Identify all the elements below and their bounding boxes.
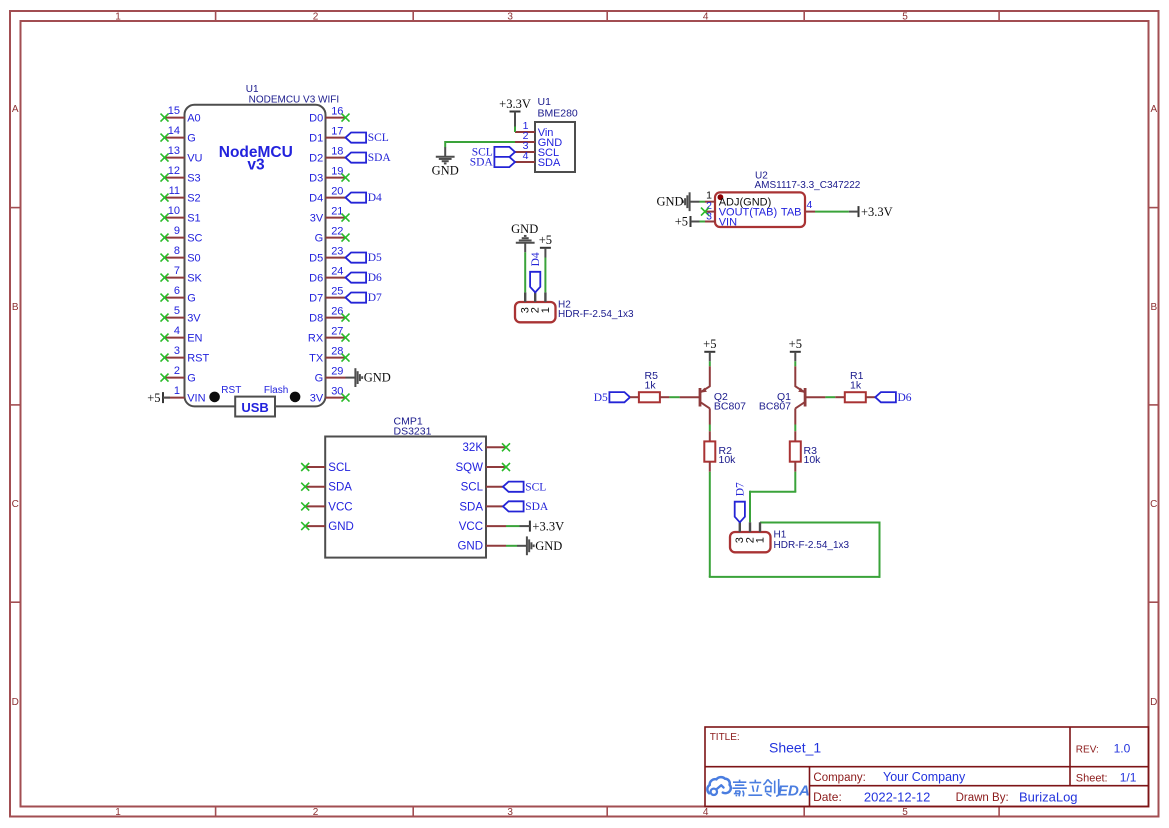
svg-text:D4: D4 — [309, 192, 323, 204]
svg-text:13: 13 — [168, 145, 180, 157]
svg-text:1: 1 — [115, 807, 121, 818]
svg-text:10k: 10k — [719, 454, 737, 466]
svg-text:22: 22 — [331, 225, 343, 237]
svg-text:D4: D4 — [368, 192, 382, 204]
U1 BME280 pin 2 (GND) — [515, 130, 562, 149]
U1 pin 28 (TX) — [309, 345, 349, 364]
power +3.3V flag at U2 pin 4 — [849, 205, 893, 219]
svg-text:4: 4 — [174, 325, 180, 337]
wire +5 to Q2 emitter — [709, 361, 711, 366]
U1 pin 23 (D5) — [309, 245, 345, 264]
svg-text:BurizaLog: BurizaLog — [1019, 789, 1078, 804]
transistor Q1 BC807 — [759, 366, 826, 424]
wire R2 to H1 pin 1 (loop) — [709, 472, 881, 578]
svg-text:+5: +5 — [147, 391, 160, 405]
svg-text:VCC: VCC — [328, 501, 352, 513]
net flag D5 at U1 pin 23 — [346, 252, 383, 264]
net flag SDA at U1 pin 18 — [346, 152, 392, 164]
svg-text:U1: U1 — [538, 96, 552, 108]
svg-text:G: G — [187, 132, 196, 144]
svg-text:SK: SK — [187, 272, 202, 284]
svg-text:D4: D4 — [530, 252, 542, 266]
svg-text:GND: GND — [535, 539, 562, 553]
svg-text:C: C — [12, 499, 19, 510]
svg-text:21: 21 — [331, 205, 343, 217]
svg-text:G: G — [187, 372, 196, 384]
U1 pin 30 (3V) — [310, 385, 350, 404]
net flag D5 — [594, 392, 630, 404]
svg-text:S1: S1 — [187, 212, 200, 224]
svg-text:BC807: BC807 — [759, 401, 791, 413]
U1 pin 20 (D4) — [309, 185, 345, 204]
CMP1 right pin SDA — [459, 501, 506, 513]
svg-text:A: A — [1150, 104, 1157, 115]
svg-text:SCL: SCL — [328, 462, 351, 474]
net flag D4 at H2 pin 2 — [530, 252, 542, 292]
ground flag GND at U2 pin 1 — [657, 192, 700, 211]
U1 pin 15 (A0) — [161, 105, 201, 124]
U1 pin 26 (D8) — [309, 305, 349, 324]
title block texts — [710, 732, 1137, 804]
U2 pin 2 VOUT(TAB) — [701, 200, 777, 219]
svg-text:HDR-F-2.54_1x3: HDR-F-2.54_1x3 — [774, 540, 850, 551]
wire GND to H2 pin 3 — [524, 252, 526, 292]
U1 pin 29 (G) — [315, 365, 346, 384]
wire Q1 base to R1 — [825, 396, 835, 398]
U1 BME280 pin 3 (SCL) — [515, 140, 559, 159]
wire R3 to H1 pin 2 — [750, 472, 796, 523]
power +5 flag above Q2 — [703, 337, 716, 361]
svg-text:EN: EN — [187, 332, 202, 344]
svg-text:32K: 32K — [463, 442, 484, 454]
CMP1 right pin SCL — [461, 482, 506, 494]
svg-text:G: G — [187, 292, 196, 304]
svg-text:2022-12-12: 2022-12-12 — [864, 789, 931, 804]
EasyEDA logo cloud — [707, 777, 730, 795]
svg-text:D: D — [1150, 697, 1157, 708]
svg-text:Flash: Flash — [264, 385, 288, 396]
U2 pin 3 VIN — [705, 211, 737, 229]
U1 pin 9 (SC) — [161, 225, 203, 244]
svg-text:3V: 3V — [187, 312, 201, 324]
svg-text:10: 10 — [168, 205, 180, 217]
svg-text:D1: D1 — [309, 132, 323, 144]
net flag SDA at CMP1 — [503, 501, 549, 513]
svg-text:15: 15 — [168, 105, 180, 117]
H1 pin 2 — [744, 522, 756, 543]
svg-text:2: 2 — [313, 12, 319, 23]
U1 pin 17 (D1) — [309, 125, 345, 144]
svg-text:A: A — [12, 104, 19, 115]
svg-text:H1: H1 — [774, 530, 787, 541]
U2 pin 1 ADJ(GND) — [705, 190, 771, 209]
U1 USB connector box — [235, 397, 275, 417]
svg-text:NODEMCU V3 WIFI: NODEMCU V3 WIFI — [249, 95, 340, 106]
power +5 flag at U1 pin 1 VIN — [147, 391, 170, 405]
U1 pin 6 (G) — [161, 285, 196, 304]
svg-text:AMS1117-3.3_C347222: AMS1117-3.3_C347222 — [755, 180, 861, 191]
svg-text:S2: S2 — [187, 192, 200, 204]
svg-text:S3: S3 — [187, 172, 200, 184]
svg-text:16: 16 — [331, 105, 343, 117]
svg-text:30: 30 — [331, 385, 343, 397]
U1 pin 22 (G) — [315, 225, 350, 244]
svg-text:EDA: EDA — [778, 783, 810, 800]
U1 BME280 pin 1 (Vin) — [515, 120, 553, 139]
U1 pin 12 (S3) — [161, 165, 201, 184]
resistor R5 1k — [630, 370, 669, 402]
svg-text:D5: D5 — [309, 252, 323, 264]
svg-text:9: 9 — [174, 225, 180, 237]
svg-text:3: 3 — [174, 345, 180, 357]
sensor U1 BME280 body — [535, 96, 578, 172]
power +5 flag above Q1 — [789, 337, 802, 361]
wire +5 to U2 pin 3 — [700, 221, 706, 223]
svg-text:1: 1 — [115, 12, 121, 23]
svg-text:SDA: SDA — [525, 501, 549, 513]
svg-text:VIN: VIN — [719, 217, 737, 229]
svg-text:GND: GND — [657, 195, 684, 209]
U1 BME280 pin 4 (SDA) — [515, 150, 561, 169]
U1 pin 13 (VU) — [161, 145, 203, 164]
U1 pin 21 (3V) — [310, 205, 350, 224]
svg-text:TAB: TAB — [781, 206, 802, 218]
U1 pin 3 (RST) — [161, 345, 210, 364]
wire R5 to Q2 base — [669, 396, 679, 398]
svg-text:1: 1 — [754, 537, 766, 543]
svg-text:SC: SC — [187, 232, 202, 244]
U1 pin 27 (RX) — [308, 325, 350, 344]
svg-text:D7: D7 — [309, 292, 323, 304]
svg-text:1.0: 1.0 — [1114, 742, 1131, 756]
svg-text:17: 17 — [331, 125, 343, 137]
U1 pin 16 (D0) — [309, 105, 349, 124]
svg-text:2: 2 — [174, 365, 180, 377]
svg-text:+3.3V: +3.3V — [499, 97, 531, 111]
U1 Flash button dot — [264, 385, 301, 402]
svg-text:2: 2 — [313, 807, 319, 818]
wire BME280 pin 2 GND to ground — [445, 141, 515, 147]
svg-text:5: 5 — [902, 807, 908, 818]
svg-text:v3: v3 — [247, 156, 265, 173]
svg-text:+5: +5 — [703, 337, 716, 351]
H2 pin 1 — [540, 292, 552, 313]
net flag SCL at U1 pin 17 — [346, 132, 389, 144]
wire +5 to H2 pin 1 — [544, 258, 546, 293]
svg-text:1k: 1k — [850, 379, 862, 391]
svg-text:VU: VU — [187, 152, 202, 164]
H2 pin 2 — [530, 292, 542, 313]
net flag D4 at U1 pin 20 — [346, 192, 383, 204]
svg-text:28: 28 — [331, 345, 343, 357]
wire Q1 collector to R3 — [794, 425, 796, 432]
svg-text:3V: 3V — [310, 392, 324, 404]
svg-text:VIN: VIN — [187, 392, 205, 404]
svg-text:4: 4 — [703, 807, 709, 818]
U1 pin 1 (VIN) — [165, 385, 206, 404]
svg-text:1: 1 — [174, 385, 180, 397]
resistor R1 1k — [835, 370, 875, 402]
net flag D6 — [875, 392, 912, 404]
svg-text:8: 8 — [174, 245, 180, 257]
regulator U2 AMS1117-3.3_C347222 body — [715, 171, 861, 227]
svg-text:5: 5 — [174, 305, 180, 317]
U1 pin 11 (S2) — [161, 185, 201, 204]
svg-text:6: 6 — [174, 285, 180, 297]
svg-text:GND: GND — [511, 222, 538, 236]
svg-text:D5: D5 — [594, 392, 608, 404]
svg-text:3: 3 — [507, 12, 513, 23]
U1 pin 5 (3V) — [161, 305, 202, 324]
H1 pin 3 — [734, 522, 746, 543]
svg-text:11: 11 — [169, 185, 180, 197]
svg-text:29: 29 — [331, 365, 343, 377]
svg-text:BME280: BME280 — [538, 107, 578, 119]
svg-text:D8: D8 — [309, 312, 323, 324]
net flag D7 at H1 pin 3 — [734, 482, 746, 522]
svg-text:D7: D7 — [734, 482, 746, 496]
svg-text:SQW: SQW — [456, 462, 484, 474]
U1 pin 25 (D7) — [309, 285, 345, 304]
svg-text:4: 4 — [703, 12, 709, 23]
svg-text:BC807: BC807 — [714, 401, 746, 413]
svg-text:GND: GND — [457, 541, 483, 553]
net flag D6 at U1 pin 24 — [346, 272, 383, 284]
svg-text:G: G — [315, 232, 324, 244]
U1 pin 24 (D6) — [309, 265, 345, 284]
svg-text:3: 3 — [507, 807, 513, 818]
svg-text:+3.3V: +3.3V — [532, 519, 564, 533]
svg-text:GND: GND — [364, 371, 391, 385]
svg-text:+5: +5 — [675, 215, 688, 229]
svg-text:D6: D6 — [898, 392, 912, 404]
net flag SDA at BME280 pin 4 — [470, 157, 515, 169]
svg-text:TX: TX — [309, 352, 324, 364]
power +3.3V flag above BME280 pin 1 — [499, 97, 531, 127]
mcu module U1 NODEMCU V3 WIFI body — [185, 84, 340, 407]
U1 pin 7 (SK) — [161, 265, 203, 284]
ground flag GND above H2 pin 3 — [511, 222, 538, 252]
svg-text:B: B — [12, 302, 19, 313]
H1 pin 1 — [754, 522, 766, 543]
svg-text:4: 4 — [523, 150, 529, 162]
svg-text:S0: S0 — [187, 252, 200, 264]
svg-text:27: 27 — [331, 325, 343, 337]
svg-text:USB: USB — [241, 400, 268, 415]
svg-text:RX: RX — [308, 332, 324, 344]
svg-text:7: 7 — [174, 265, 180, 277]
power +5 flag above H2 pin 1 — [539, 233, 552, 257]
CMP1 right pin SQW — [456, 462, 510, 474]
CMP1 left pin VCC — [301, 501, 352, 513]
svg-text:HDR-F-2.54_1x3: HDR-F-2.54_1x3 — [558, 309, 634, 320]
svg-text:20: 20 — [331, 185, 343, 197]
svg-text:Company:: Company: — [813, 772, 865, 784]
svg-text:U1: U1 — [246, 84, 259, 95]
svg-text:23: 23 — [331, 245, 343, 257]
wire +3.3V to BME280 pin 1 — [514, 127, 516, 133]
svg-text:SDA: SDA — [470, 157, 494, 169]
transistor Q2 BC807 — [680, 366, 747, 424]
wire U2 pin 4 to +3.3V — [815, 211, 849, 213]
net flag D7 at U1 pin 25 — [346, 292, 383, 304]
svg-text:D6: D6 — [309, 272, 323, 284]
U1 pin 4 (EN) — [161, 325, 203, 344]
svg-text:26: 26 — [331, 305, 343, 317]
svg-text:3: 3 — [706, 211, 712, 223]
svg-text:+5: +5 — [789, 337, 802, 351]
svg-text:5: 5 — [902, 12, 908, 23]
svg-text:19: 19 — [331, 165, 343, 177]
svg-text:+5: +5 — [539, 233, 552, 247]
ground flag at CMP1 GND — [517, 536, 562, 555]
svg-text:SCL: SCL — [461, 482, 484, 494]
svg-text:D3: D3 — [309, 172, 323, 184]
svg-text:14: 14 — [168, 125, 180, 137]
svg-text:1k: 1k — [645, 379, 657, 391]
CMP1 left pin GND — [301, 521, 354, 533]
svg-text:SDA: SDA — [368, 152, 392, 164]
U1 pin 8 (S0) — [161, 245, 201, 264]
ground flag at U1 pin 29 — [346, 368, 391, 387]
svg-text:B: B — [1150, 302, 1157, 313]
svg-text:SCL: SCL — [368, 132, 389, 144]
svg-text:12: 12 — [168, 165, 180, 177]
connector H1 HDR-F-2.54_1x3 body — [730, 530, 850, 553]
svg-text:DS3231: DS3231 — [394, 425, 432, 437]
svg-text:D: D — [12, 697, 19, 708]
svg-text:REV:: REV: — [1076, 745, 1099, 756]
resistor R3 10k — [790, 431, 821, 471]
power +5 flag at U2 pin 3 — [675, 215, 700, 229]
svg-text:VCC: VCC — [459, 521, 483, 533]
svg-text:Your Company: Your Company — [883, 770, 966, 784]
svg-text:D2: D2 — [309, 152, 323, 164]
wire Q2 collector to R2 — [709, 425, 711, 432]
power +3.3V flag at CMP1 VCC — [520, 519, 565, 533]
connector H2 HDR-F-2.54_1x3 body — [515, 300, 634, 323]
CMP1 right pin VCC — [459, 521, 506, 533]
svg-text:D0: D0 — [309, 112, 323, 124]
CMP1 right pin 32K — [463, 442, 510, 454]
svg-text:D7: D7 — [368, 292, 382, 304]
svg-text:SCL: SCL — [525, 481, 546, 493]
EasyEDA logo text 嘉立创 — [732, 779, 778, 796]
svg-text:C: C — [1150, 499, 1157, 510]
frame row letters — [12, 104, 1158, 708]
svg-text:10k: 10k — [804, 454, 822, 466]
net flag SCL at CMP1 — [503, 481, 546, 493]
CMP1 right pin GND — [457, 541, 506, 553]
U1 pin 19 (D3) — [309, 165, 349, 184]
svg-text:TITLE:: TITLE: — [710, 732, 740, 743]
net flag SCL at BME280 pin 3 — [472, 147, 515, 159]
svg-text:RST: RST — [187, 352, 209, 364]
svg-text:Sheet:: Sheet: — [1076, 772, 1108, 784]
svg-text:D5: D5 — [368, 252, 382, 264]
svg-text:SDA: SDA — [538, 157, 561, 169]
CMP1 left pin SDA — [301, 482, 352, 494]
svg-text:D6: D6 — [368, 272, 382, 284]
U2 pin 4 TAB — [781, 199, 815, 218]
svg-text:SDA: SDA — [459, 501, 483, 513]
svg-text:Date:: Date: — [813, 790, 842, 804]
svg-text:4: 4 — [807, 199, 813, 211]
frame column numbers — [115, 12, 908, 818]
svg-text:25: 25 — [331, 285, 343, 297]
svg-text:Sheet_1: Sheet_1 — [769, 739, 821, 755]
U1 pin 14 (G) — [161, 125, 196, 144]
svg-text:SDA: SDA — [328, 482, 352, 494]
title block — [705, 727, 1149, 807]
svg-text:GND: GND — [432, 163, 459, 177]
svg-text:1/1: 1/1 — [1120, 770, 1137, 784]
resistor R2 10k — [704, 431, 736, 471]
svg-text:G: G — [315, 372, 324, 384]
svg-text:+3.3V: +3.3V — [861, 205, 893, 219]
wire CMP1 GND to ground — [506, 545, 517, 547]
svg-text:1: 1 — [540, 307, 552, 313]
ground symbol GND left of BME280 — [432, 147, 459, 177]
rtc module CMP1 DS3231 body — [325, 415, 486, 557]
U1 pin 18 (D2) — [309, 145, 345, 164]
svg-text:A0: A0 — [187, 112, 200, 124]
U1 RST button dot — [209, 385, 241, 402]
U1 pin 10 (S1) — [161, 205, 201, 224]
H2 pin 3 — [520, 292, 532, 313]
svg-text:RST: RST — [221, 385, 241, 396]
svg-text:Drawn By:: Drawn By: — [956, 792, 1009, 804]
wire CMP1 VCC to +3.3V — [506, 525, 520, 527]
CMP1 left pin SCL — [301, 462, 351, 474]
svg-text:GND: GND — [328, 521, 354, 533]
wire +5 to Q1 emitter — [794, 361, 796, 366]
svg-text:24: 24 — [331, 265, 343, 277]
U1 pin 2 (G) — [161, 365, 196, 384]
svg-text:18: 18 — [331, 145, 343, 157]
svg-text:3V: 3V — [310, 212, 324, 224]
wire GND to U2 pin 1 — [700, 201, 706, 203]
